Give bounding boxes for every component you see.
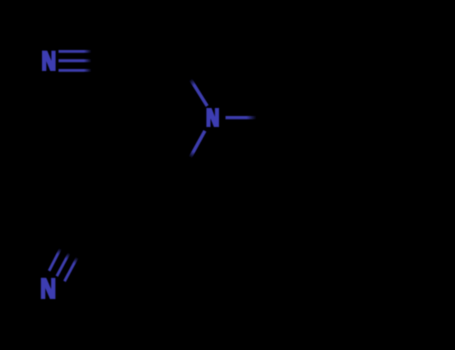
triple bond C≡N3 line C (lower-right) [65, 257, 78, 281]
triple bond C≡N1 line 3 (bottom) [59, 69, 92, 72]
bond N2-phenyl right stub [226, 116, 257, 119]
triple bond C≡N3 line B (middle) [57, 253, 69, 276]
triple bond C≡N1 line 1 (top) [59, 50, 92, 53]
bond N2-CH2 lower-left stub [190, 131, 205, 158]
bond N2-CH2 upper-left stub [191, 79, 208, 106]
nitrile nitrogen N1 label (top-left) [42, 51, 56, 71]
nitrile nitrogen N3 label (bottom-left) [41, 278, 56, 299]
triple bond C≡N1 line 2 (middle) [59, 59, 92, 62]
triple bond C≡N3 line A (upper-left) [49, 249, 60, 271]
amine nitrogen N2 label (center) [206, 108, 219, 127]
